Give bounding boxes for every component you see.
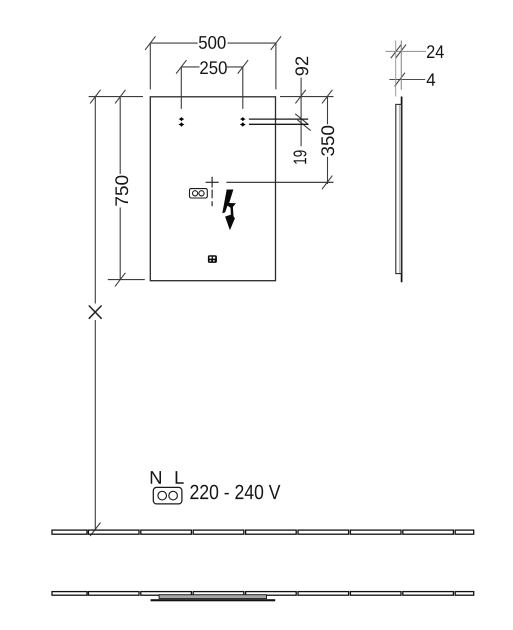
sensor switch icon [208, 255, 217, 263]
star lower [240, 122, 246, 127]
dimension 92/19 line [300, 78, 302, 147]
dimension 350 bottom tick [322, 176, 332, 190]
wall section line lower [52, 592, 474, 596]
right extension line at mirror top [280, 96, 334, 98]
label L [176, 471, 184, 484]
mirror outline (front view) [150, 97, 275, 281]
side view mirror glass line [401, 97, 403, 283]
dimension X bottom tick [90, 523, 100, 537]
voltage text 220 - 240 V [190, 485, 280, 500]
dimension X text [89, 306, 101, 318]
hanger star right [240, 117, 246, 127]
dimension 24 text [427, 45, 444, 58]
junction horizontal line [226, 181, 333, 183]
dimension 750 bottom tick [115, 273, 125, 287]
dimension 500 line [150, 43, 276, 89]
dimension 4 text [427, 73, 436, 85]
side view: 4 dimension line [389, 79, 425, 81]
wall section line upper [52, 530, 474, 534]
left extension ticks [90, 90, 125, 104]
mounting rail double lines [249, 119, 308, 124]
hanger star left [179, 117, 185, 127]
star upper [179, 117, 185, 121]
left extension line at mirror top [89, 96, 143, 98]
cable outlet socket icon [190, 189, 208, 198]
dimension 350 text [321, 126, 334, 156]
rail double tick [295, 114, 311, 131]
dimension 500 ticks [145, 36, 281, 50]
right extension ticks [295, 90, 332, 104]
plan view backlight box [159, 595, 266, 599]
mirror bottom extension line [108, 279, 145, 281]
dimension 500 text [199, 36, 226, 49]
dimension 750 line [119, 97, 121, 280]
lightning bolt [222, 190, 236, 231]
dimension 92 text [295, 57, 308, 76]
label N [151, 471, 161, 484]
crosshair centerline [206, 177, 219, 206]
star lower [179, 122, 185, 127]
dimension 19 text [293, 150, 306, 163]
star upper [240, 117, 246, 121]
dimension 750 text [115, 176, 128, 206]
side view extension lines [395, 41, 397, 97]
side view: 24 dimension line [386, 50, 427, 52]
4 dimension tick [395, 73, 405, 87]
mains socket symbol [153, 487, 182, 504]
dimension 250 text [200, 61, 227, 74]
dimension X line [94, 97, 96, 530]
dimension 250 line [181, 67, 243, 109]
dimension 250 ticks [176, 60, 248, 74]
24 double tick [391, 45, 406, 59]
side view box inner line [398, 105, 400, 273]
plan view mirror glass [151, 599, 276, 601]
dimension 350 line [327, 96, 329, 184]
side view backlight box [396, 104, 402, 273]
